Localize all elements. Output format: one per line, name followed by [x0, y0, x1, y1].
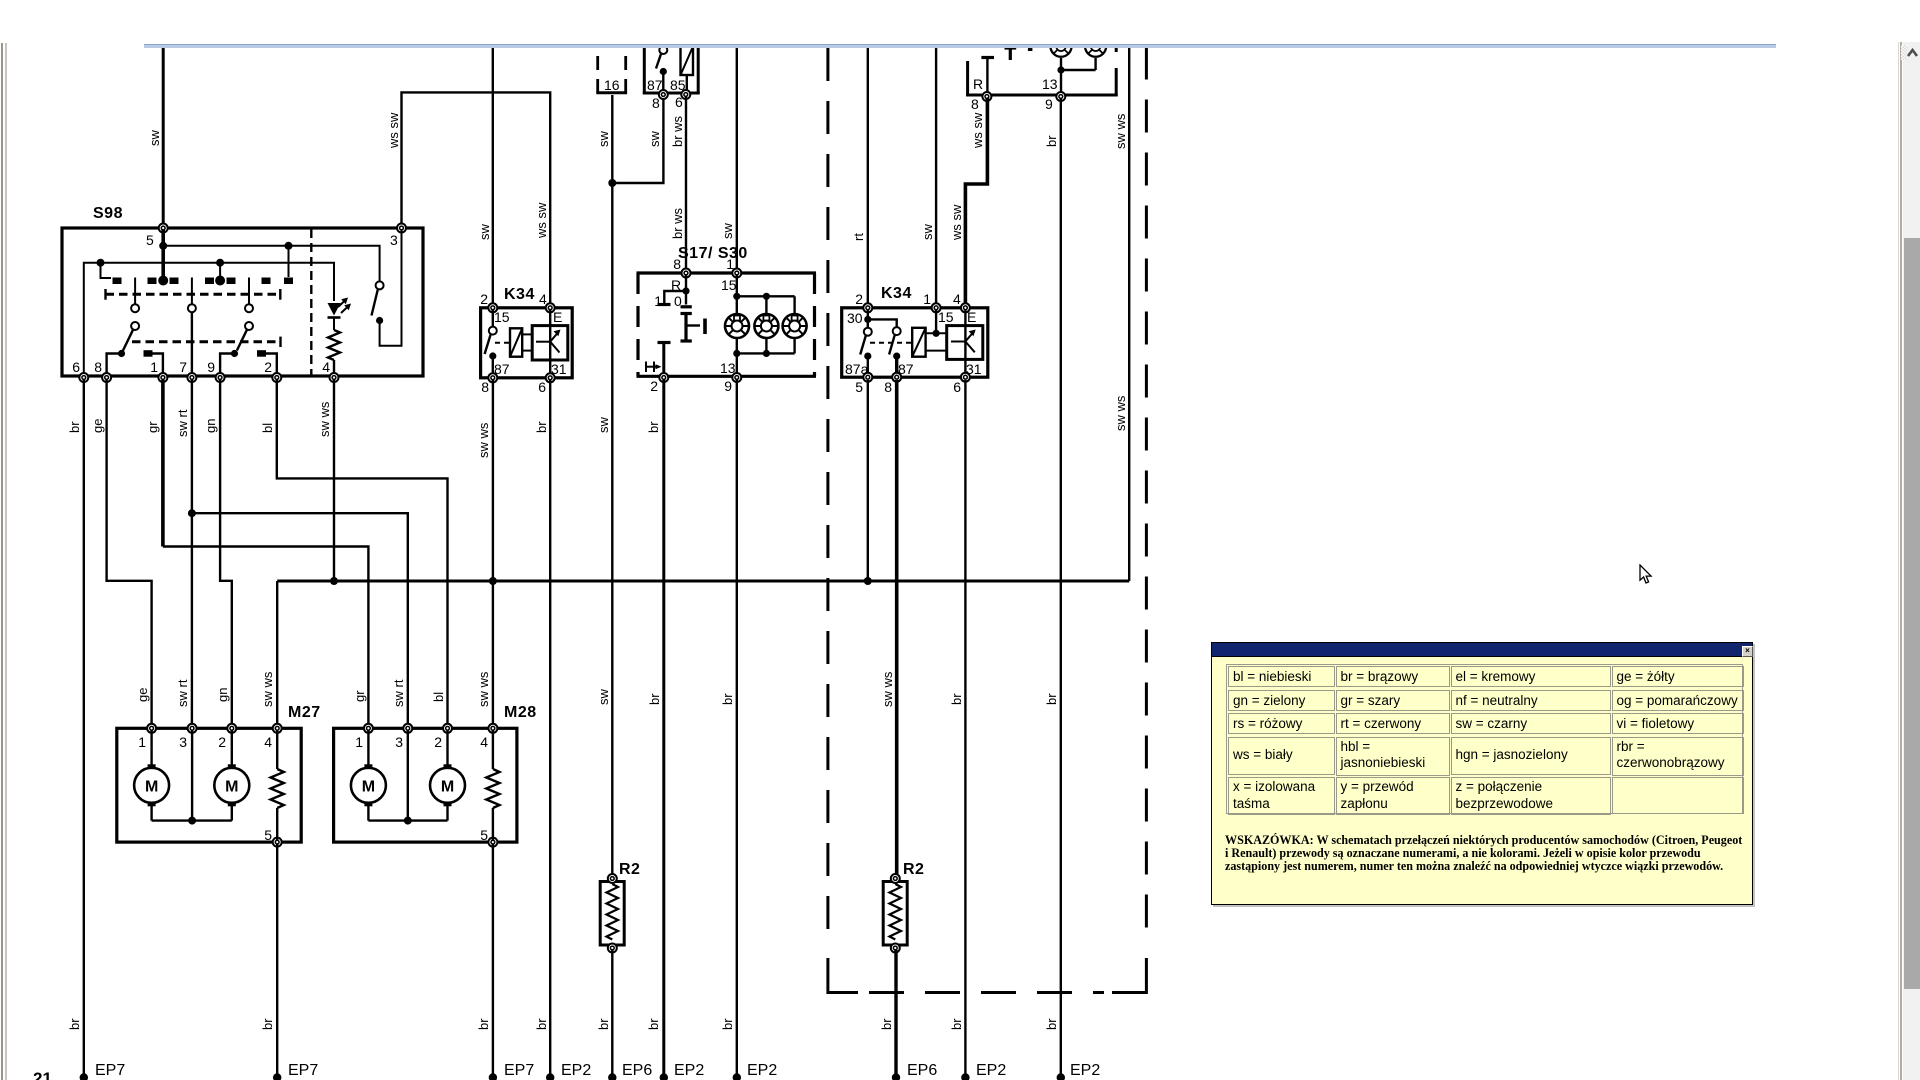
- svg-text:8: 8: [481, 379, 489, 395]
- K34 I terminal 4: [546, 303, 555, 312]
- svg-text:br: br: [720, 693, 735, 705]
- note paragraph: [1225, 833, 1783, 873]
- lamp wiring to pin 13: [1057, 58, 1095, 95]
- S98 switch pole 1: [107, 278, 140, 377]
- svg-text:9: 9: [724, 378, 732, 394]
- relay 87/85 coil: [681, 47, 694, 94]
- wire label ws sw (control unit pin8 upper): [970, 112, 985, 149]
- internal T contact (partial): [1005, 47, 1033, 61]
- svg-text:gr: gr: [352, 690, 367, 702]
- svg-text:5: 5: [264, 827, 272, 843]
- switch unit S17/S30 box: [637, 245, 817, 376]
- wire label br ws (87/85 pin6 upper): [670, 115, 685, 147]
- top pane highlight bar: [144, 44, 1776, 48]
- ground point EP7 (M27): [273, 1062, 318, 1080]
- svg-text:EP2: EP2: [561, 1062, 591, 1079]
- wire label br (EP7 M27): [260, 1018, 275, 1030]
- svg-text:br: br: [879, 1018, 894, 1030]
- svg-text:7: 7: [179, 359, 187, 375]
- motor 1 in M27: [134, 764, 169, 806]
- svg-text:2: 2: [434, 734, 442, 750]
- K34 II electronic unit E: [947, 309, 983, 377]
- svg-text:br: br: [720, 1018, 735, 1030]
- svg-text:M27: M27: [288, 704, 321, 721]
- control unit box with pins R and 13 (partial at top): [966, 47, 1118, 97]
- wire label sw ws (right bus feed lower): [1113, 395, 1128, 431]
- svg-text:30: 30: [847, 310, 863, 326]
- svg-text:br: br: [949, 1018, 964, 1030]
- wire br from M28 pin 5 to EP7: [492, 844, 494, 1077]
- svg-text:0: 0: [674, 293, 682, 309]
- svg-text:EP6: EP6: [907, 1062, 937, 1079]
- svg-text:ws sw: ws sw: [970, 112, 985, 149]
- scrollbar dotted corner: [1901, 45, 1907, 60]
- svg-text:8: 8: [971, 96, 979, 112]
- S17/S30 output contact to pin 2: [658, 343, 671, 378]
- svg-text:EP2: EP2: [1070, 1062, 1100, 1079]
- K34 I terminal 2: [488, 303, 497, 312]
- K34 II switch 87: [870, 327, 912, 377]
- wire label br (S17 pin9 lower): [720, 693, 735, 705]
- wire label br (EP2 far right): [1044, 1018, 1059, 1030]
- terminal 8 of relay 87/85: [652, 90, 668, 111]
- connector 16: [596, 56, 627, 93]
- svg-text:EP6: EP6: [622, 1062, 652, 1079]
- svg-text:EP7: EP7: [95, 1062, 125, 1079]
- svg-text:sw ws: sw ws: [317, 401, 332, 437]
- svg-text:1: 1: [654, 293, 662, 309]
- wire br from S17/S30 pin 2 to EP2: [662, 380, 665, 1077]
- svg-text:br: br: [1044, 135, 1059, 147]
- svg-text:sw: sw: [720, 223, 735, 240]
- terminal 9 of control unit: [1045, 92, 1065, 112]
- svg-text:2: 2: [650, 378, 658, 394]
- resistor inside S98: [328, 318, 340, 377]
- svg-text:sw ws: sw ws: [476, 671, 491, 707]
- svg-text:br: br: [534, 421, 549, 433]
- svg-text:br: br: [260, 1018, 275, 1030]
- wire sw rt branch to M28 pin 3: [188, 509, 408, 729]
- wire ws sw link S98 pin 3 to K34 pin 4: [402, 92, 551, 306]
- wire label rt (K34 II pin2): [851, 233, 866, 241]
- illumination lamp 2: [754, 314, 778, 338]
- svg-text:sw rt: sw rt: [391, 679, 406, 707]
- wire br ws from relay 87/85 pin 6 to S17/S30 pin 8: [685, 96, 687, 272]
- wire label br (EP6 R2 left): [596, 1018, 611, 1030]
- left pane border: [1, 43, 3, 1080]
- S98 switch pole 3: [220, 278, 253, 377]
- wire from K34 II pin 5 to ground bus: [867, 380, 869, 581]
- svg-text:gr: gr: [145, 421, 160, 433]
- svg-text:br: br: [596, 1018, 611, 1030]
- motor M27 left wiring: [152, 730, 232, 825]
- K34 I electronic unit E: [532, 309, 568, 377]
- terminal 6 of relay 87/85: [675, 90, 690, 110]
- wire label br (S17 pin2 mid): [646, 421, 661, 433]
- wire label sw ws (K34 II pin8): [880, 671, 895, 707]
- wire sw ws from S98 pin 4 to ground bus: [333, 380, 335, 581]
- page number 21 (cut off): [33, 1069, 52, 1080]
- wire label br (control unit pin9): [1044, 135, 1059, 147]
- K34 II terminal 5: [855, 373, 872, 395]
- relay K34 II box: [842, 285, 988, 377]
- svg-text:8: 8: [94, 359, 102, 375]
- svg-text:6: 6: [953, 379, 961, 395]
- svg-text:sw ws: sw ws: [260, 671, 275, 707]
- svg-text:sw ws: sw ws: [1113, 113, 1128, 149]
- popup title bar: [1212, 643, 1752, 657]
- scrollbar track: [1903, 42, 1920, 1080]
- wire label gn (S98 pin9): [203, 419, 218, 433]
- wire label br (S98 pin6): [67, 421, 82, 433]
- wire label sw (S98 pin5 top): [147, 130, 162, 147]
- ground point EP2 (K34 II pin 6): [961, 1062, 1006, 1080]
- wire label ws sw (to K34 II pin4): [949, 204, 964, 241]
- wire label sw rt (M27 pin3): [175, 679, 190, 707]
- right pane border: [1898, 42, 1899, 1080]
- wire br from R2 left to EP6: [611, 950, 613, 1077]
- wire label sw (R2 left top): [596, 417, 611, 434]
- wire label sw ws (S98 pin4): [317, 401, 332, 437]
- S17/S30 terminal 1: [732, 269, 741, 278]
- S98 auxiliary switch right: [372, 230, 402, 346]
- svg-text:2: 2: [218, 734, 226, 750]
- resistor in M27: [271, 730, 284, 841]
- wire br from M27 pin 5 to EP7: [276, 844, 278, 1077]
- mouse cursor: [1639, 564, 1655, 586]
- motor M28 left wiring: [368, 730, 447, 825]
- svg-text:8: 8: [884, 379, 892, 395]
- wire label br (EP7 M28): [476, 1018, 491, 1030]
- svg-text:16: 16: [604, 77, 620, 93]
- S98 mechanical coupling dashed line upper: [106, 289, 281, 300]
- S98 terminal 5: [146, 224, 168, 249]
- wire label br ws (to S17 pin8): [670, 207, 685, 239]
- wire label ge (M27 pin1): [135, 688, 150, 702]
- wire br from control unit pin 9 down to EP2: [1060, 98, 1062, 1077]
- wire label sw rt (S98 pin7): [175, 409, 190, 437]
- ground bus line: [277, 577, 1129, 585]
- svg-text:br: br: [1044, 693, 1059, 705]
- svg-text:13: 13: [1042, 76, 1058, 92]
- motor unit M28 box: [334, 704, 537, 843]
- svg-text:E: E: [553, 309, 562, 325]
- svg-text:9: 9: [1045, 96, 1053, 112]
- svg-text:gn: gn: [203, 419, 218, 433]
- resistor R2 left: [600, 861, 640, 953]
- svg-text:br: br: [67, 421, 82, 433]
- wire label br (K34 II pin6 lower): [949, 693, 964, 705]
- terminal 8 of control unit: [971, 92, 991, 112]
- illumination lamp 3: [783, 314, 807, 338]
- illumination lamp 1: [725, 314, 749, 338]
- motor 2 in M27: [214, 764, 249, 806]
- svg-text:EP2: EP2: [976, 1062, 1006, 1079]
- svg-text:2: 2: [855, 291, 863, 307]
- K34 II terminal 2: [863, 303, 872, 312]
- wire label br (EP2 S17 pin9): [720, 1018, 735, 1030]
- wire label sw ws (right bus feed upper): [1113, 113, 1128, 149]
- scrollbar thumb: [1904, 238, 1920, 989]
- popup close button: [1742, 646, 1753, 657]
- svg-text:br: br: [647, 693, 662, 705]
- K34 II switch 87a: [860, 328, 872, 377]
- svg-text:sw rt: sw rt: [175, 409, 190, 437]
- motor unit M27 box: [117, 704, 321, 843]
- svg-text:sw: sw: [920, 224, 935, 241]
- svg-text:br: br: [534, 1018, 549, 1030]
- svg-text:br: br: [646, 1018, 661, 1030]
- motor 1 in M28: [351, 764, 386, 806]
- K34 I relay coil: [510, 328, 532, 356]
- K34 I terminal 8: [481, 373, 497, 395]
- M27 terminals: [147, 724, 282, 847]
- svg-text:4: 4: [953, 291, 961, 307]
- svg-text:br: br: [949, 693, 964, 705]
- S17/S30 terminal 2: [650, 373, 668, 394]
- wire label sw ws (M28 pin4): [476, 671, 491, 707]
- wire sw ws thick from K34 II pin 8 to resistor R2: [895, 380, 899, 878]
- svg-text:sw ws: sw ws: [476, 422, 491, 458]
- svg-text:15: 15: [721, 277, 737, 293]
- svg-text:gn: gn: [215, 688, 230, 702]
- svg-text:5: 5: [146, 232, 154, 248]
- svg-text:EP7: EP7: [288, 1062, 318, 1079]
- wire label sw (connector 16): [596, 131, 611, 148]
- S98 pin 5 feed stem: [161, 230, 165, 281]
- svg-text:K34: K34: [504, 286, 535, 303]
- svg-text:3: 3: [179, 734, 187, 750]
- wire sw branch to relay 87 pin 8: [612, 96, 663, 183]
- K34 II terminal 8: [884, 373, 901, 395]
- wire sw net from top edge to S98 pin 5: [162, 46, 165, 227]
- svg-text:br: br: [1044, 1018, 1059, 1030]
- svg-text:15: 15: [938, 309, 954, 325]
- svg-text:EP7: EP7: [504, 1062, 534, 1079]
- S98 bottom terminals: [72, 359, 338, 382]
- K34 II terminal 1: [932, 303, 941, 312]
- wire sw ws from top edge to ground bus: [1128, 47, 1130, 582]
- K34 II relay coil: [912, 309, 947, 357]
- svg-text:2: 2: [480, 291, 488, 307]
- svg-text:bl: bl: [260, 423, 275, 433]
- wire br from K34 I pin 6 to EP2: [549, 380, 551, 1077]
- S17/S30 sliding contact: [681, 314, 706, 342]
- S98 mechanical coupling dashed line lower: [132, 337, 281, 347]
- wire bl from S98 pin 2 to M28 pin 2: [277, 380, 448, 729]
- ground point EP6 (R2 right): [892, 1062, 938, 1080]
- S17/S30 terminal 8: [682, 269, 691, 278]
- svg-text:rt: rt: [851, 233, 866, 241]
- relay 87/85 switch contact: [656, 46, 667, 93]
- svg-text:4: 4: [264, 734, 272, 750]
- svg-text:sw: sw: [596, 689, 611, 706]
- wire sw from top edge to K34 pin 2: [492, 46, 494, 306]
- wire rt from top edge to K34 II pin 2: [867, 46, 869, 306]
- relay K34 I box: [480, 286, 572, 378]
- svg-text:ge: ge: [135, 688, 150, 702]
- S98 internal rail A: [159, 242, 379, 281]
- svg-text:sw ws: sw ws: [880, 671, 895, 707]
- svg-text:1: 1: [923, 291, 931, 307]
- switch unit S98 box: [62, 205, 423, 376]
- resistor in M28: [486, 730, 499, 841]
- svg-text:EP2: EP2: [674, 1062, 704, 1079]
- svg-text:9: 9: [207, 359, 215, 375]
- svg-text:2: 2: [264, 359, 272, 375]
- wire label br (control unit pin9 lower): [1044, 693, 1059, 705]
- svg-text:EP2: EP2: [747, 1062, 777, 1079]
- svg-text:5: 5: [480, 827, 488, 843]
- K34 II terminal 6: [953, 373, 970, 395]
- svg-text:5: 5: [855, 379, 863, 395]
- wire br from R2 right to EP6: [894, 950, 897, 1077]
- S98 pin 2 contact elbow: [257, 350, 277, 376]
- svg-text:R2: R2: [903, 861, 924, 878]
- dashed separator bottom: [869, 991, 1104, 994]
- legend colour table: [1226, 664, 1743, 814]
- svg-text:ws sw: ws sw: [386, 112, 401, 149]
- svg-text:R: R: [973, 76, 983, 92]
- LED indicator in S98: [328, 298, 352, 318]
- svg-text:M28: M28: [504, 704, 537, 721]
- wire ws sw thick from control unit pin 8 to K34 II pin 4: [965, 98, 987, 306]
- K34 II input node 30: [864, 309, 897, 328]
- svg-text:3: 3: [390, 232, 398, 248]
- wire label br (EP6 R2 right): [879, 1018, 894, 1030]
- wire label bl (S98 pin2): [260, 423, 275, 433]
- dashed separator line left: [828, 48, 858, 993]
- wire ge from S98 pin 8 to M27 pin 1: [107, 380, 152, 729]
- S98 switch pole 2: [188, 278, 196, 377]
- wire label bl (M28 pin2): [431, 692, 446, 702]
- wire label ws sw (S98 pin3 link): [386, 112, 401, 149]
- wire br from K34 II pin 6 to EP2: [964, 380, 966, 1077]
- svg-text:8: 8: [673, 256, 681, 272]
- svg-text:br ws: br ws: [670, 207, 685, 239]
- wire label sw rt (M28 pin3): [391, 679, 406, 707]
- svg-text:K34: K34: [881, 285, 912, 302]
- S17/S30 terminal 9: [724, 373, 741, 394]
- scrollbar up arrow: [1906, 47, 1919, 58]
- S17/S30 selector contacts: [654, 274, 692, 309]
- svg-text:br: br: [646, 421, 661, 433]
- svg-text:4: 4: [322, 359, 330, 375]
- svg-text:br: br: [476, 1018, 491, 1030]
- wire label br (EP7 left): [67, 1018, 82, 1030]
- wire label br (EP2 K34 II): [949, 1018, 964, 1030]
- wire gn from S98 pin 9 to M27 pin 2: [220, 380, 232, 729]
- wire label sw (branch to 87): [647, 131, 662, 148]
- wire label gr (S98 pin1): [145, 421, 160, 433]
- relay box 87/85 (partial at top): [643, 47, 700, 95]
- wire gr from S98 pin 1 to M28 pin 1: [163, 380, 369, 729]
- S98 internal rail B: [84, 259, 334, 376]
- svg-text:S98: S98: [93, 205, 123, 222]
- svg-text:br ws: br ws: [670, 115, 685, 147]
- svg-text:21: 21: [33, 1069, 52, 1080]
- svg-text:ws sw: ws sw: [534, 202, 549, 239]
- svg-text:sw: sw: [596, 131, 611, 148]
- svg-text:R2: R2: [619, 861, 640, 878]
- svg-text:bl: bl: [431, 692, 446, 702]
- wire label sw (K34 II pin1): [920, 224, 935, 241]
- indicator lamps (partial at top): [1050, 36, 1106, 57]
- svg-text:6: 6: [72, 359, 80, 375]
- wire label br (S17 pin2 lower): [647, 693, 662, 705]
- svg-text:8: 8: [652, 95, 660, 111]
- wire label sw (to S17 pin1): [720, 223, 735, 240]
- M28 terminals: [364, 724, 498, 847]
- wire sw from connector 16 down to resistor R2: [611, 95, 613, 878]
- svg-text:br: br: [67, 1018, 82, 1030]
- K34 I switch contact: [485, 309, 510, 377]
- pin R internal contact bar: [981, 58, 994, 96]
- svg-text:ws sw: ws sw: [949, 204, 964, 241]
- wire label sw (R2 left mid): [596, 689, 611, 706]
- motor 2 in M28: [430, 764, 465, 806]
- wire sw from top edge to K34 II pin 1: [935, 46, 937, 306]
- svg-text:sw: sw: [147, 130, 162, 147]
- wire label sw (K34 I pin2): [477, 224, 492, 241]
- wire label ge (S98 pin8): [90, 419, 105, 433]
- svg-text:S17/ S30: S17/ S30: [678, 245, 748, 262]
- ground point EP2 (K34 I pin 6): [546, 1062, 591, 1080]
- svg-text:sw ws: sw ws: [1113, 395, 1128, 431]
- svg-text:sw: sw: [647, 131, 662, 148]
- wire sw ws from K34 I pin 8 through bus to M28 pin 4: [492, 380, 494, 729]
- wire label sw ws (K34 I pin8): [476, 422, 491, 458]
- ground point EP2 (S17/S30 pin 2): [660, 1062, 705, 1080]
- wire br from S98 pin 6 to EP7: [83, 380, 85, 1077]
- resistor R2 right: [883, 861, 924, 953]
- junction on sw wire: [608, 179, 616, 187]
- dashed separator line right: [1112, 47, 1146, 993]
- S17/S30 lamp group wiring: [733, 274, 794, 376]
- K34 I terminal 6: [538, 373, 554, 395]
- svg-text:6: 6: [675, 94, 683, 110]
- svg-text:1: 1: [138, 734, 146, 750]
- wire label gr (M28 pin1): [352, 690, 367, 702]
- S98 pin 1 contact elbow: [144, 350, 163, 376]
- svg-text:sw: sw: [596, 417, 611, 434]
- svg-text:3: 3: [395, 734, 403, 750]
- svg-text:1: 1: [355, 734, 363, 750]
- ground point EP6 (R2 left): [608, 1062, 652, 1080]
- svg-text:ge: ge: [90, 419, 105, 433]
- heater icon H: [646, 362, 662, 373]
- wire label br (K34 I pin6): [534, 421, 549, 433]
- wire label sw ws (M27 pin4): [260, 671, 275, 707]
- svg-text:4: 4: [480, 734, 488, 750]
- wire sw from top edge to S17/S30 pin 1: [736, 46, 738, 272]
- svg-text:6: 6: [538, 379, 546, 395]
- ground point EP7 (S98 pin 6 wire): [80, 1062, 126, 1080]
- svg-text:1: 1: [150, 359, 158, 375]
- K34 II terminal 4: [961, 303, 970, 312]
- S98 contact pad row: [113, 276, 294, 286]
- wire sw rt from S98 pin 7 to M27 pin 3: [191, 380, 193, 729]
- bus drop to M27 pin 4: [276, 581, 278, 729]
- wire br from S17/S30 pin 9 to EP2: [736, 380, 738, 1077]
- ground point EP7 (M28): [489, 1062, 535, 1080]
- S98 terminal 3: [390, 224, 406, 249]
- legend popup window: [1211, 642, 1753, 905]
- svg-text:sw rt: sw rt: [175, 679, 190, 707]
- ground point EP2 (control unit pin 9): [1057, 1062, 1101, 1080]
- wire label gn (M27 pin2): [215, 688, 230, 702]
- wire label ws sw (K34 I pin4): [534, 202, 549, 239]
